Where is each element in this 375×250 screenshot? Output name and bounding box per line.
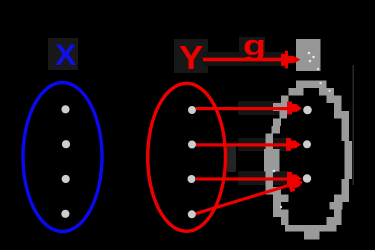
- compression halo above label X: [48, 38, 78, 70]
- arrow y1 to z1: [196, 102, 302, 115]
- compression halo along arrow3: [238, 171, 288, 185]
- set X ellipse (blue): [23, 83, 102, 232]
- element dots set Y: [188, 106, 197, 218]
- compression halo around label g: [239, 37, 265, 61]
- label g: [243, 32, 266, 61]
- compression halo along top arrow: [203, 52, 283, 66]
- arrow y2 to z2: [196, 138, 301, 151]
- arrow g: Y to Z (top): [203, 51, 301, 69]
- element dots set X: [61, 105, 70, 218]
- arrow y3 to z3: [196, 172, 302, 185]
- white specks on ring: [273, 82, 331, 208]
- Z label specks: [308, 52, 319, 71]
- element dots set Z: [303, 106, 312, 183]
- compression echo right of ring: [353, 65, 355, 185]
- compression halo column near arrow2: [227, 146, 236, 172]
- set Z ellipse (pixelated gray ring): [264, 80, 352, 239]
- label X: [55, 41, 76, 71]
- Z label box: [296, 39, 321, 71]
- label Y: [179, 41, 203, 74]
- compression halo along arrow2: [238, 138, 286, 151]
- compression halo along arrow1: [238, 101, 288, 115]
- compression halo around label Y: [174, 39, 208, 73]
- set Y ellipse (red): [148, 83, 226, 231]
- arrow y4 to z3 (slanted): [195, 176, 305, 214]
